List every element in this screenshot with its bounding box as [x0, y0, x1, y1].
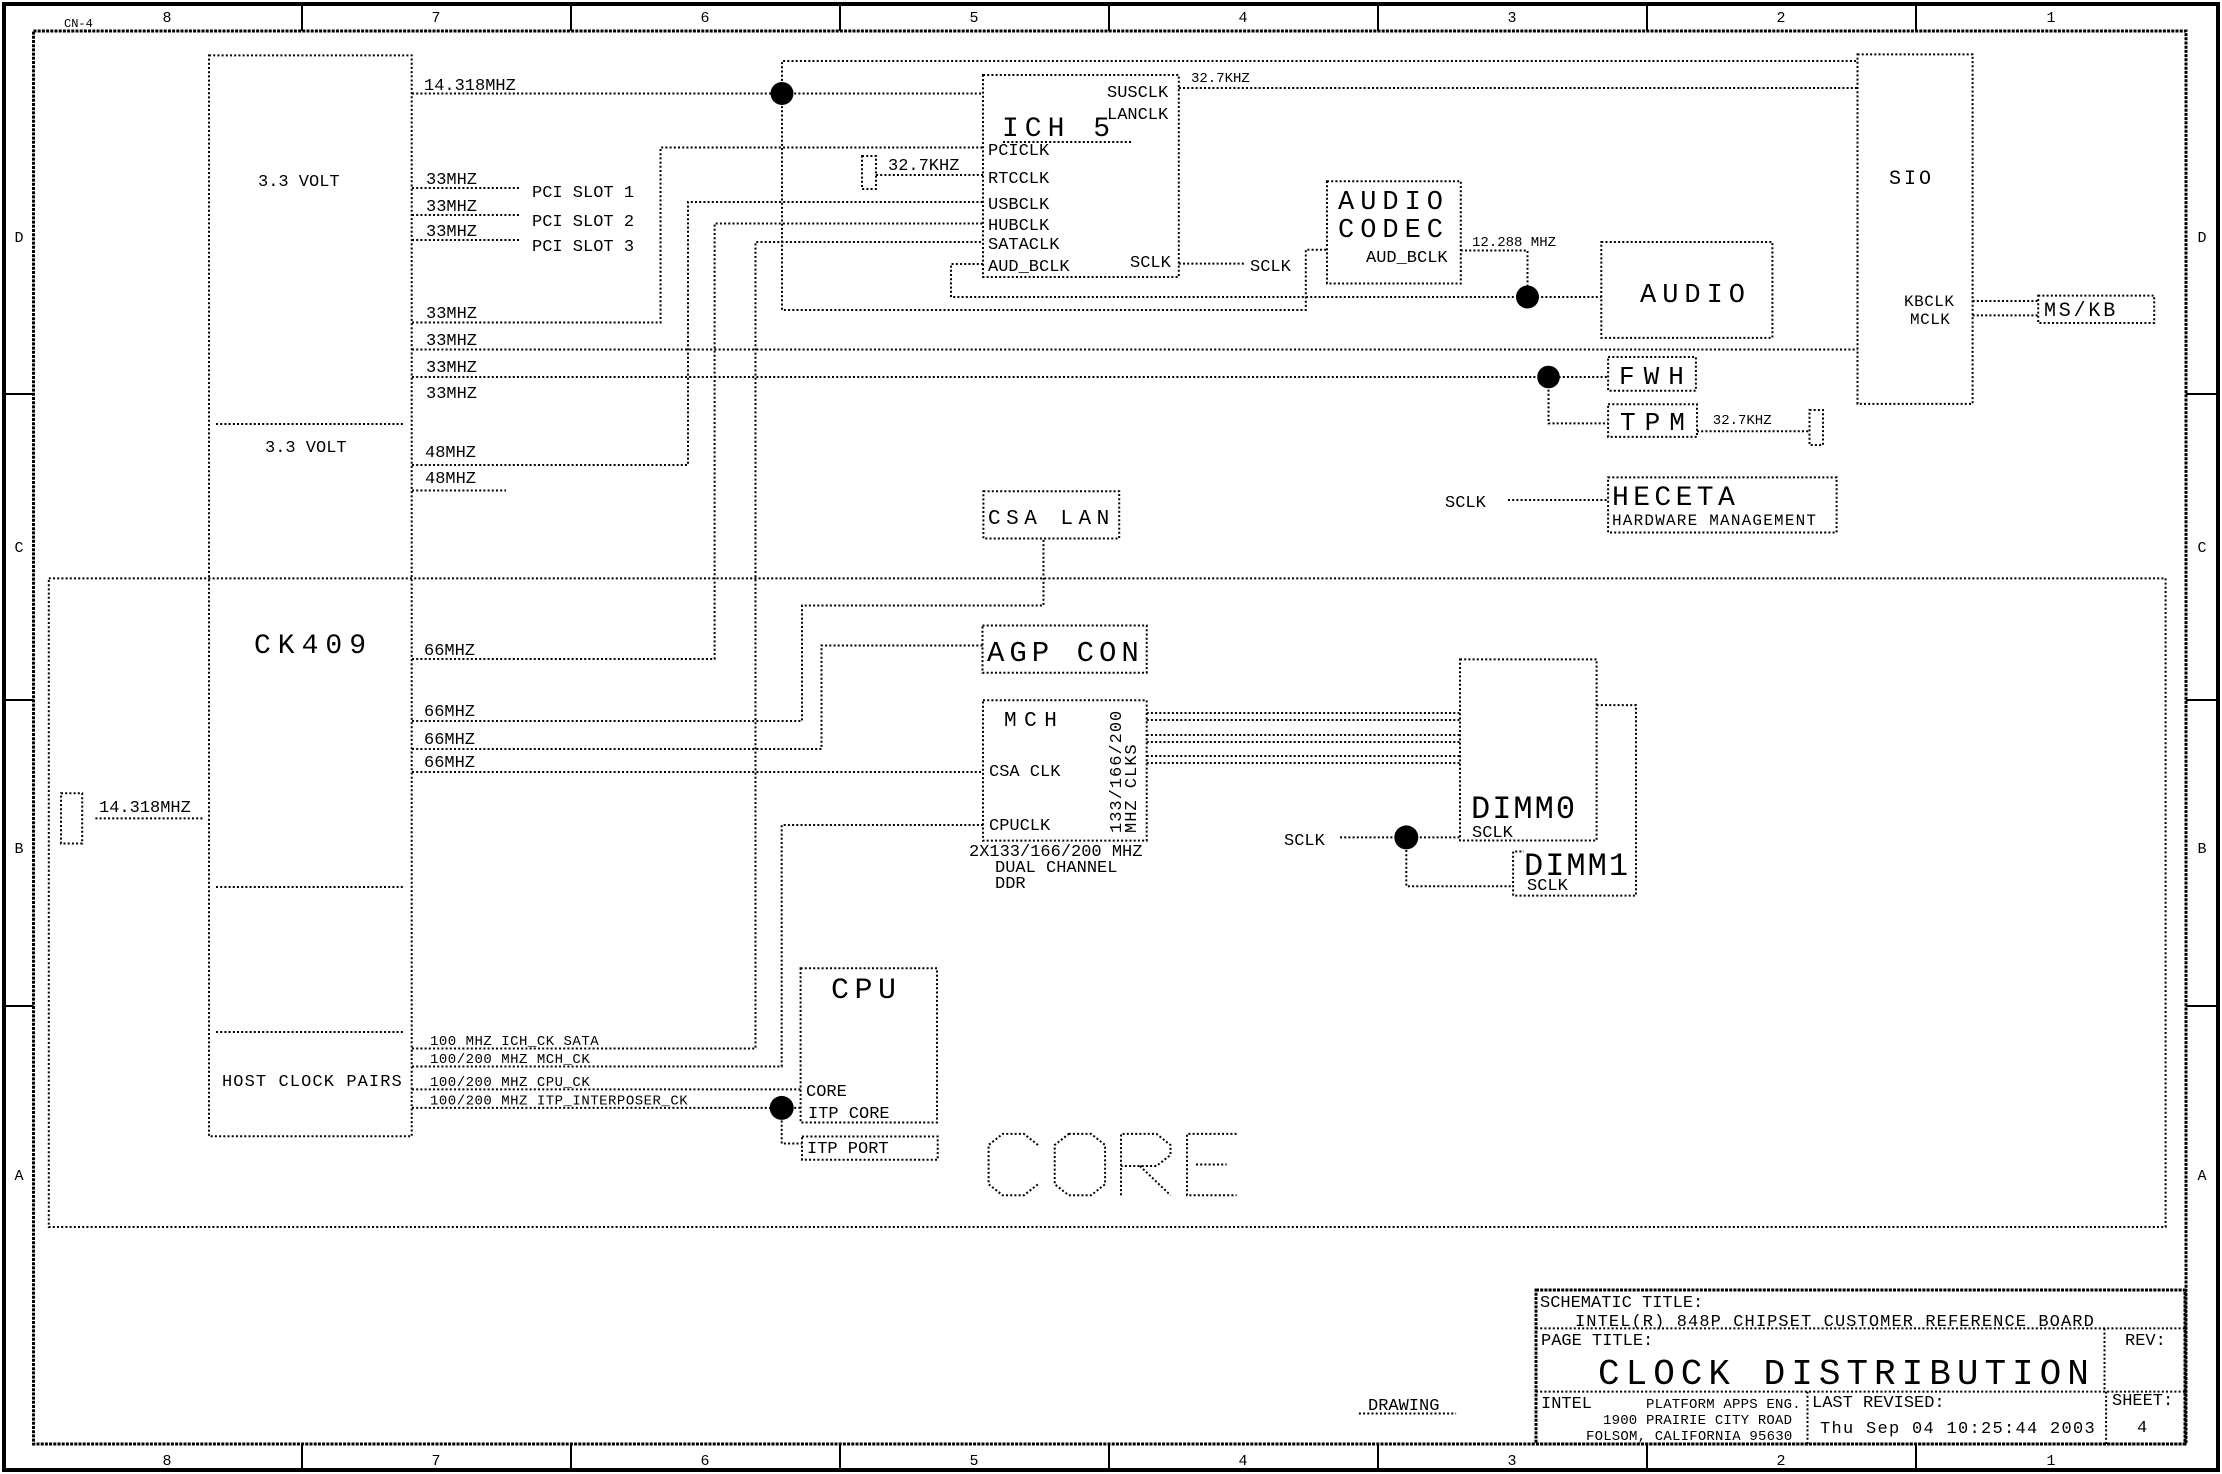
svg-text:66MHZ: 66MHZ: [424, 703, 475, 722]
svg-text:48MHZ: 48MHZ: [425, 470, 476, 489]
svg-text:ITP PORT: ITP PORT: [807, 1140, 889, 1159]
svg-text:B: B: [14, 841, 23, 858]
wire ICH5 AUD_BCLK to AUDIO: [951, 264, 1601, 297]
wire MCH to DIMM0 133/166/200 MHZ clocks: [1147, 713, 1460, 763]
svg-text:2: 2: [1776, 1453, 1785, 1470]
svg-text:MS/KB: MS/KB: [2044, 300, 2118, 323]
wire SCLK to HECETA: [1445, 494, 1608, 513]
wire 33MHZ PCI SLOT 2: [412, 198, 634, 232]
svg-text:12.288 MHZ: 12.288 MHZ: [1472, 235, 1556, 251]
svg-text:C: C: [14, 540, 23, 557]
svg-text:33MHZ: 33MHZ: [426, 359, 477, 378]
op ICH 5 southbridge: [983, 75, 1179, 277]
svg-text:HECETA: HECETA: [1612, 483, 1739, 514]
node CORE outline lettering: [989, 1134, 1237, 1195]
wire SIO KBCLK to MS/KB: [1973, 300, 2039, 302]
svg-text:48MHZ: 48MHZ: [425, 444, 476, 463]
wire TPM to 32.7KHZ crystal: [1697, 413, 1810, 431]
svg-text:PAGE TITLE:: PAGE TITLE:: [1541, 1332, 1653, 1351]
node FWH TPM junction: [1537, 366, 1560, 389]
svg-text:CPU: CPU: [831, 974, 902, 1008]
svg-text:7: 7: [431, 10, 440, 27]
wire SIO MCLK to MS/KB: [1973, 314, 2039, 316]
wire 14.318MHZ CK409 to ICH5: [412, 77, 983, 96]
svg-text:CN-4: CN-4: [64, 17, 93, 31]
svg-text:HUBCLK: HUBCLK: [988, 217, 1050, 236]
svg-text:PCI SLOT 1: PCI SLOT 1: [532, 184, 634, 203]
svg-text:32.7KHZ: 32.7KHZ: [888, 157, 959, 176]
svg-text:3: 3: [1507, 10, 1516, 27]
wire 33MHZ to FWH: [412, 359, 1608, 378]
svg-text:C: C: [2197, 540, 2206, 557]
svg-text:3.3 VOLT: 3.3 VOLT: [258, 173, 340, 192]
op ITP PORT: [802, 1137, 938, 1160]
svg-text:ITP CORE: ITP CORE: [808, 1105, 890, 1124]
svg-text:TPM: TPM: [1620, 408, 1694, 438]
svg-text:32.7KHZ: 32.7KHZ: [1191, 71, 1250, 87]
svg-text:2: 2: [1776, 10, 1785, 27]
svg-text:D: D: [14, 230, 23, 247]
svg-text:FWH: FWH: [1619, 362, 1693, 392]
op AUDIO block: [1601, 242, 1772, 338]
op CPU: [801, 968, 937, 1124]
op HECETA hardware management: [1608, 477, 1837, 532]
svg-text:D: D: [2197, 230, 2206, 247]
svg-text:33MHZ: 33MHZ: [426, 332, 477, 351]
wire AUDIO CODEC AUD_BCLK 12.288 MHZ: [1461, 235, 1556, 297]
svg-text:CSA CLK: CSA CLK: [989, 763, 1061, 782]
svg-text:B: B: [2197, 841, 2206, 858]
wire 48MHZ to ICH5 USBCLK: [412, 202, 983, 465]
svg-text:33MHZ: 33MHZ: [426, 385, 477, 404]
node 14.318MHZ junction: [771, 82, 794, 105]
crystal 32.7KHZ TPM: [1810, 410, 1824, 445]
node CORE domain boundary: [49, 578, 2166, 1227]
op SIO super IO: [1858, 54, 1973, 404]
node DIMM SCLK junction: [1394, 825, 1418, 849]
wire 33MHZ to ICH5 PCICLK: [412, 148, 983, 325]
svg-text:1900 PRAIRIE CITY ROAD: 1900 PRAIRIE CITY ROAD: [1603, 1413, 1792, 1429]
svg-text:PCI SLOT 3: PCI SLOT 3: [532, 238, 634, 257]
svg-text:66MHZ: 66MHZ: [424, 731, 475, 750]
svg-text:SUSCLK: SUSCLK: [1107, 84, 1169, 103]
svg-text:LANCLK: LANCLK: [1107, 106, 1169, 125]
node DRAWING note: [1359, 1397, 1456, 1416]
wire 66MHZ to ICH5 HUBCLK: [412, 224, 983, 662]
svg-text:33MHZ: 33MHZ: [426, 305, 477, 324]
crystal 14.318MHZ reference: [61, 793, 204, 843]
svg-text:AUD_BCLK: AUD_BCLK: [1366, 249, 1448, 268]
svg-text:DRAWING: DRAWING: [1368, 1397, 1439, 1416]
svg-text:HOST CLOCK PAIRS: HOST CLOCK PAIRS: [222, 1073, 403, 1092]
svg-text:8: 8: [162, 1453, 171, 1470]
svg-text:FOLSOM, CALIFORNIA 95630: FOLSOM, CALIFORNIA 95630: [1586, 1429, 1792, 1445]
op MS/KB connector: [2038, 296, 2154, 323]
svg-text:MCLK: MCLK: [1910, 311, 1950, 329]
svg-text:3: 3: [1507, 1453, 1516, 1470]
svg-text:SIO: SIO: [1889, 168, 1934, 191]
svg-text:PCICLK: PCICLK: [988, 142, 1050, 161]
wire 14.318MHZ junction up to SIO: [782, 61, 1858, 94]
svg-text:INTEL: INTEL: [1541, 1395, 1592, 1414]
op FWH firmware hub: [1608, 357, 1696, 392]
svg-text:DIMM0: DIMM0: [1471, 791, 1577, 828]
svg-text:CPUCLK: CPUCLK: [989, 817, 1051, 836]
svg-text:SCLK: SCLK: [1445, 494, 1487, 513]
svg-text:AGP CON: AGP CON: [987, 637, 1144, 670]
wire 48MHZ stub: [412, 470, 506, 491]
svg-text:66MHZ: 66MHZ: [424, 754, 475, 773]
wire SCLK to DIMM0: [1284, 832, 1460, 851]
wire 100/200 MHZ CPU_CK to CPU CORE: [412, 1075, 801, 1091]
svg-text:MCH: MCH: [1004, 710, 1064, 733]
svg-text:4: 4: [1238, 10, 1247, 27]
svg-text:1: 1: [2046, 1453, 2055, 1470]
svg-text:32.7KHZ: 32.7KHZ: [1713, 413, 1772, 429]
op CSA LAN: [983, 491, 1119, 538]
svg-text:CSA LAN: CSA LAN: [988, 508, 1115, 531]
svg-text:SCLK: SCLK: [1527, 877, 1569, 896]
svg-text:A: A: [2197, 1168, 2206, 1185]
wire 66MHZ to AGP CON: [412, 646, 983, 751]
svg-text:A: A: [14, 1168, 23, 1185]
wire 100/200 MHZ ITP_INTERPOSER_CK: [412, 1094, 801, 1110]
svg-text:HARDWARE MANAGEMENT: HARDWARE MANAGEMENT: [1612, 512, 1817, 530]
svg-text:5: 5: [969, 1453, 978, 1470]
svg-text:RTCCLK: RTCCLK: [988, 170, 1050, 189]
svg-text:REV:: REV:: [2125, 1332, 2166, 1351]
svg-text:14.318MHZ: 14.318MHZ: [99, 799, 191, 818]
svg-text:AUDIO: AUDIO: [1640, 281, 1751, 311]
svg-text:SCLK: SCLK: [1472, 824, 1514, 843]
wire 66MHZ to CSA LAN: [412, 539, 1044, 723]
svg-text:SCLK: SCLK: [1250, 258, 1292, 277]
svg-text:AUD_BCLK: AUD_BCLK: [988, 258, 1070, 277]
wire SUSCLK 32.7KHZ to SIO: [1179, 71, 1858, 88]
svg-text:PCI SLOT 2: PCI SLOT 2: [532, 213, 634, 232]
op DIMM1: [1513, 705, 1636, 896]
wire FWH junction to TPM: [1549, 377, 1609, 423]
wire 14.318MHZ junction down to AUDIO CODEC: [782, 94, 1327, 311]
op DIMM0: [1460, 659, 1597, 843]
svg-text:LAST REVISED:: LAST REVISED:: [1812, 1394, 1945, 1413]
node title block: [1536, 1290, 2185, 1445]
op AGP CON: [983, 626, 1147, 673]
svg-text:4: 4: [1238, 1453, 1247, 1470]
wire 100/200 MHZ MCH_CK to MCH CPUCLK: [412, 825, 983, 1068]
crystal 32.7KHZ RTC: [862, 156, 959, 189]
node ITP junction: [770, 1096, 794, 1120]
svg-text:CLOCK DISTRIBUTION: CLOCK DISTRIBUTION: [1598, 1354, 2095, 1395]
node AUD_BCLK junction: [1516, 286, 1539, 309]
node MCH DDR note: [969, 843, 1142, 894]
svg-text:Thu Sep 04 10:25:44 2003: Thu Sep 04 10:25:44 2003: [1820, 1420, 2096, 1439]
svg-text:1: 1: [2046, 10, 2055, 27]
wire RTC crystal to ICH5 RTCCLK: [876, 174, 983, 176]
svg-text:3.3 VOLT: 3.3 VOLT: [265, 439, 347, 458]
svg-text:4: 4: [2137, 1419, 2147, 1438]
svg-text:CK409: CK409: [254, 631, 373, 662]
wire ITP junction to ITP PORT: [782, 1108, 802, 1144]
op MCH northbridge: [983, 700, 1147, 840]
wire 33MHZ PCI SLOT 1: [412, 171, 634, 203]
svg-text:SHEET:: SHEET:: [2112, 1392, 2173, 1411]
svg-text:SATACLK: SATACLK: [988, 236, 1060, 255]
svg-text:INTEL(R) 848P CHIPSET CUSTOMER: INTEL(R) 848P CHIPSET CUSTOMER REFERENCE…: [1575, 1313, 2095, 1332]
wire SCLK junction to DIMM1: [1406, 837, 1513, 886]
svg-text:CORE: CORE: [806, 1083, 847, 1102]
svg-text:6: 6: [700, 1453, 709, 1470]
svg-text:ICH 5: ICH 5: [1002, 114, 1116, 145]
svg-text:CODEC: CODEC: [1338, 216, 1449, 246]
op AUDIO CODEC: [1327, 181, 1461, 283]
svg-text:SCLK: SCLK: [1130, 254, 1172, 273]
svg-text:USBCLK: USBCLK: [988, 196, 1050, 215]
svg-text:SCLK: SCLK: [1284, 832, 1326, 851]
op TPM: [1608, 404, 1697, 438]
wire 100 MHZ ICH_CK SATA to ICH5 SATACLK: [412, 242, 983, 1050]
wire 66MHZ to MCH CSA CLK: [412, 754, 983, 773]
wire 33MHZ to SIO: [412, 332, 1858, 351]
svg-text:DDR: DDR: [995, 875, 1026, 894]
svg-text:KBCLK: KBCLK: [1904, 293, 1955, 311]
wire ICH5 SCLK stub: [1179, 263, 1246, 265]
svg-text:MHZ CLKS: MHZ CLKS: [1123, 743, 1142, 833]
svg-text:8: 8: [162, 10, 171, 27]
svg-text:7: 7: [431, 1453, 440, 1470]
CK409 clock generator: [209, 55, 412, 1136]
svg-text:5: 5: [969, 10, 978, 27]
wire 33MHZ PCI SLOT 3: [412, 223, 634, 257]
svg-text:6: 6: [700, 10, 709, 27]
svg-text:SCHEMATIC TITLE:: SCHEMATIC TITLE:: [1540, 1294, 1703, 1313]
svg-text:AUDIO: AUDIO: [1338, 188, 1449, 218]
svg-text:PLATFORM APPS ENG.: PLATFORM APPS ENG.: [1646, 1397, 1801, 1413]
